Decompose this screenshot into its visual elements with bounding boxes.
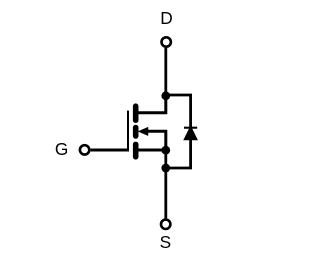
- svg-text:G: G: [55, 139, 68, 159]
- wire drain vertical from D terminal to drain junction: [164, 48, 167, 96]
- transistor Q1 drain channel bar: [133, 106, 139, 120]
- transistor Q1 source channel bar: [133, 144, 139, 156]
- diode D1 triangle (anode, pointing up): [184, 129, 197, 140]
- terminal S: [161, 220, 170, 229]
- wire gate horizontal from G terminal to gate plate: [91, 149, 129, 152]
- transistor Q1 body channel bar: [133, 128, 139, 137]
- svg-text:D: D: [160, 8, 172, 28]
- wire source junction down to diode tap junction: [164, 150, 167, 168]
- diode D1 cathode bar: [184, 127, 197, 129]
- terminal D: [162, 37, 171, 46]
- wire diode tap junction to diode anode branch: [166, 140, 191, 169]
- transistor Q1 gate plate: [127, 111, 129, 152]
- wire drain junction down and left to MOSFET drain bar: [138, 96, 166, 113]
- terminal G: [80, 145, 89, 154]
- wire body connection to source junction: [148, 131, 166, 150]
- wire source bar to source junction: [139, 149, 166, 152]
- node source junction dot: [161, 146, 170, 155]
- wire diode tap junction down to S terminal: [164, 168, 167, 218]
- svg-text:S: S: [160, 232, 172, 252]
- transistor Q1 body arrow: [138, 127, 148, 135]
- node drain junction dot: [161, 91, 170, 100]
- node diode tap junction dot: [161, 164, 170, 173]
- wire drain junction to diode cathode branch: [166, 95, 191, 128]
